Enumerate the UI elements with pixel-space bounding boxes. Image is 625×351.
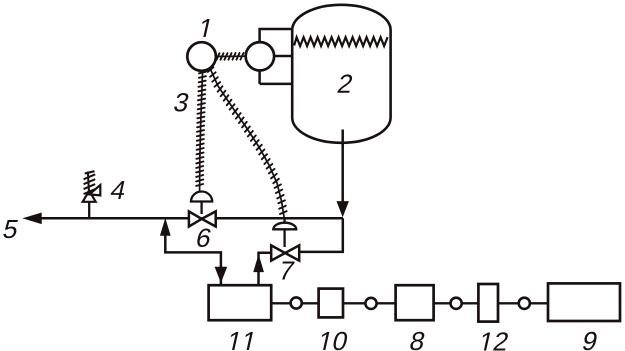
unit 10 (box) bbox=[319, 289, 343, 318]
arrowhead: flow direction to consumer 5 (points left) bbox=[24, 213, 41, 223]
label 4 bbox=[110, 181, 127, 199]
junction circle a bbox=[291, 297, 302, 308]
flexible hose 3 (armoured) from regulator 1 to valve 7 actuator bbox=[208, 67, 287, 218]
label 6 bbox=[196, 229, 212, 248]
wire: main output header line to arrow 5 bbox=[36, 217, 343, 220]
flexible hose 3 (armoured) from regulator 1 to valve 6 actuator bbox=[196, 71, 206, 192]
pipe stub inside tank 2 bbox=[341, 130, 344, 146]
control valve 6 with diaphragm actuator bbox=[189, 192, 216, 227]
wire: branch from header down/right into unit 11 bbox=[165, 224, 221, 285]
unit 11 (box) bbox=[209, 285, 272, 320]
unit 8 (box) bbox=[396, 285, 434, 320]
wire: pipe from tank 2 bottom down to header bbox=[341, 130, 344, 215]
tank (vessel) 2 bbox=[292, 5, 390, 143]
wire: bottom instrument line bbox=[271, 302, 548, 304]
arrowhead: down into unit 11 bbox=[215, 267, 226, 281]
label 5 bbox=[3, 220, 19, 238]
label 12 bbox=[480, 332, 509, 350]
liquid level zigzag inside tank 2 bbox=[294, 37, 387, 46]
junction circle c bbox=[451, 298, 462, 309]
regulator / reducer 1 (circle) bbox=[187, 42, 216, 71]
wire: from header down then left to valve 7 bbox=[290, 218, 343, 252]
label 9 bbox=[582, 332, 598, 351]
label 2 bbox=[337, 74, 353, 92]
label 7 bbox=[279, 262, 295, 280]
arrowhead: up from unit 11 toward valve 7 bbox=[254, 256, 263, 272]
arrowhead: down into header from tank 2 bbox=[337, 202, 348, 216]
label 3 bbox=[173, 93, 190, 112]
control valve 7 with diaphragm actuator bbox=[271, 218, 299, 261]
junction circle d bbox=[519, 298, 530, 309]
wire: valve 7 outlet left then down to unit 11 bbox=[259, 253, 281, 285]
arrowhead: up into header at junction bbox=[161, 220, 170, 236]
junction circle b bbox=[365, 298, 376, 309]
safety valve 4 (spring-loaded, on header) bbox=[83, 171, 101, 218]
label 10 bbox=[319, 332, 349, 351]
flexible hose (armoured) from regulator 1 to tank connection bbox=[216, 53, 245, 60]
unit 12 (box) bbox=[478, 284, 498, 322]
label 8 bbox=[409, 332, 425, 351]
mounting bracket between tank 2 nozzle and connector circle bbox=[260, 29, 293, 84]
unit 9 (box) bbox=[548, 283, 620, 321]
label 11 bbox=[228, 332, 253, 350]
tank connector circle bbox=[246, 42, 274, 70]
label 1 bbox=[199, 19, 209, 37]
